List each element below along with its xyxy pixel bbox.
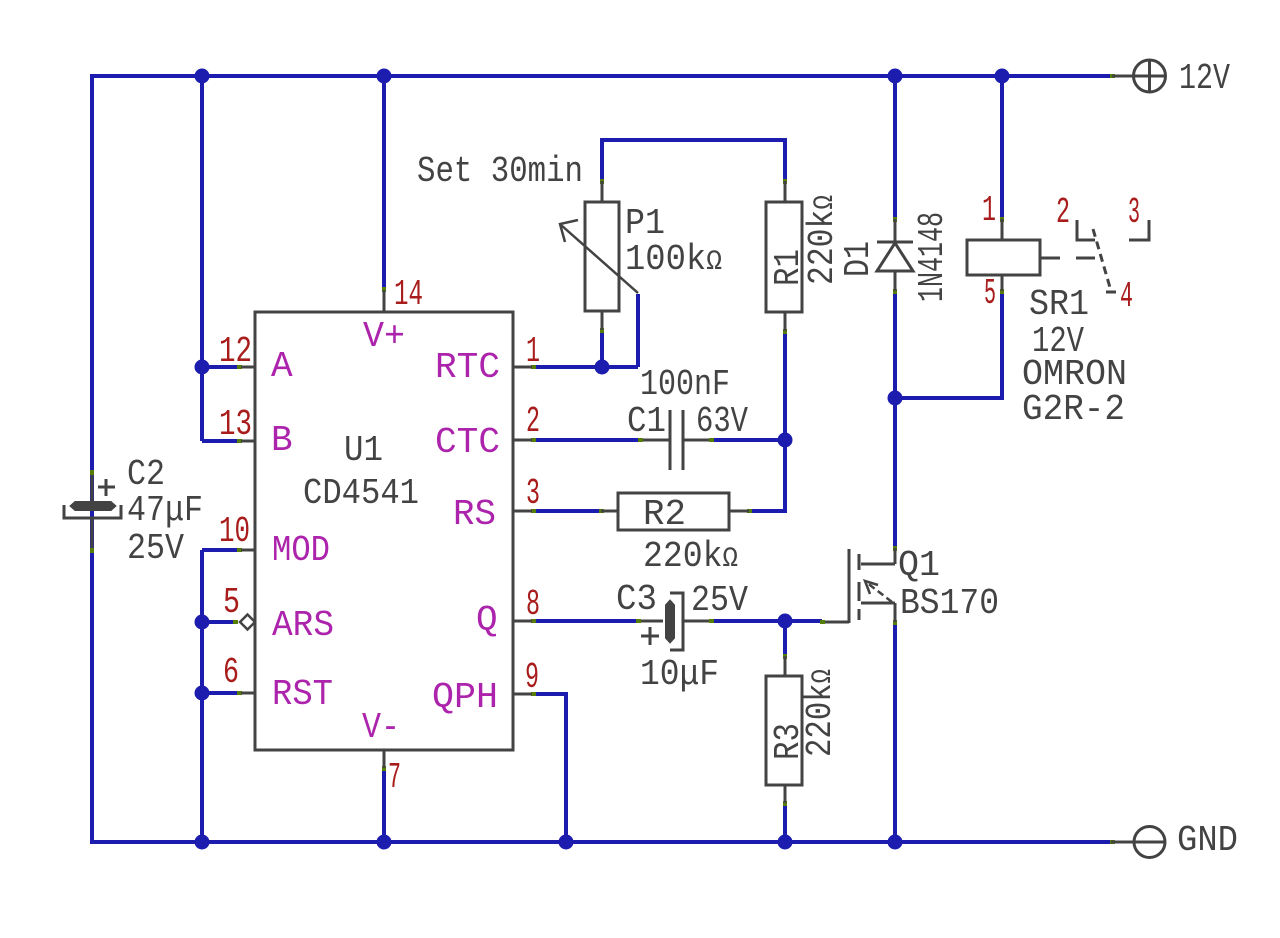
svg-text:P1: P1	[625, 203, 665, 244]
svg-text:Q: Q	[476, 600, 498, 641]
svg-text:MOD: MOD	[272, 530, 330, 571]
svg-text:1N4148: 1N4148	[912, 212, 953, 302]
svg-text:10: 10	[219, 511, 250, 552]
svg-text:G2R-2: G2R-2	[1022, 389, 1125, 430]
svg-text:CTC: CTC	[435, 422, 500, 463]
svg-text:5: 5	[223, 582, 240, 623]
svg-text:100kΩ: 100kΩ	[625, 239, 722, 280]
svg-text:B: B	[271, 420, 293, 461]
svg-text:4: 4	[1120, 276, 1133, 317]
svg-text:R2: R2	[643, 494, 686, 535]
svg-text:100nF: 100nF	[640, 364, 730, 405]
svg-text:25V: 25V	[691, 580, 748, 621]
svg-text:Q1: Q1	[898, 545, 940, 586]
svg-text:1: 1	[982, 190, 996, 231]
svg-text:2: 2	[526, 401, 540, 442]
svg-text:D1: D1	[838, 241, 879, 277]
svg-text:Set 30min: Set 30min	[417, 151, 583, 192]
svg-text:RS: RS	[453, 494, 496, 535]
svg-text:C2: C2	[127, 454, 165, 495]
svg-text:220kΩ: 220kΩ	[802, 195, 843, 285]
svg-text:GND: GND	[1177, 820, 1238, 861]
svg-text:10μF: 10μF	[640, 654, 719, 695]
svg-text:3: 3	[1128, 192, 1140, 233]
svg-text:RTC: RTC	[435, 347, 500, 388]
svg-text:7: 7	[388, 757, 401, 798]
svg-text:9: 9	[525, 657, 539, 698]
svg-text:ARS: ARS	[272, 605, 334, 646]
svg-text:63V: 63V	[696, 401, 748, 442]
svg-text:QPH: QPH	[432, 677, 498, 718]
svg-text:5: 5	[984, 273, 996, 314]
svg-text:A: A	[271, 346, 293, 387]
svg-text:13: 13	[219, 404, 252, 445]
svg-text:C3: C3	[616, 579, 657, 620]
svg-text:14: 14	[394, 274, 423, 315]
svg-text:V+: V+	[363, 316, 405, 357]
svg-text:8: 8	[526, 584, 540, 625]
svg-text:U1: U1	[344, 430, 383, 471]
svg-text:V-: V-	[362, 707, 400, 748]
svg-text:CD4541: CD4541	[303, 473, 419, 514]
svg-text:47μF: 47μF	[127, 490, 203, 531]
svg-text:6: 6	[223, 652, 239, 693]
svg-text:1: 1	[526, 331, 540, 372]
svg-text:12: 12	[219, 331, 252, 372]
svg-text:SR1: SR1	[1029, 284, 1089, 325]
svg-text:RST: RST	[272, 674, 333, 715]
svg-text:12V: 12V	[1179, 58, 1230, 99]
svg-text:3: 3	[526, 473, 540, 514]
svg-text:25V: 25V	[127, 528, 184, 569]
svg-text:BS170: BS170	[900, 583, 999, 624]
svg-text:2: 2	[1056, 192, 1070, 233]
svg-text:220kΩ: 220kΩ	[800, 669, 841, 757]
svg-text:220kΩ: 220kΩ	[643, 536, 738, 577]
svg-text:C1: C1	[627, 401, 666, 442]
